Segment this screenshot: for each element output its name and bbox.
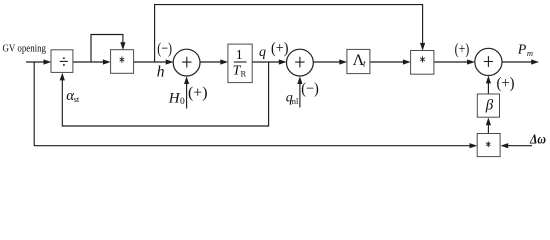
svg-text:(−): (−) xyxy=(301,81,319,98)
svg-text:GV opening: GV opening xyxy=(3,43,47,55)
svg-text:R: R xyxy=(241,68,247,78)
svg-text:H: H xyxy=(168,91,181,107)
svg-text:h: h xyxy=(157,63,165,80)
svg-text:P: P xyxy=(517,42,527,57)
svg-text:q: q xyxy=(259,45,266,60)
svg-text:(+): (+) xyxy=(497,75,515,92)
svg-text:nl: nl xyxy=(292,96,299,106)
svg-text:st: st xyxy=(74,94,80,104)
svg-text:(−): (−) xyxy=(157,41,172,58)
svg-text:β: β xyxy=(485,98,494,114)
svg-text:(+): (+) xyxy=(188,84,208,101)
svg-text:Δω: Δω xyxy=(529,133,546,148)
svg-text:m: m xyxy=(527,48,533,58)
svg-text:0: 0 xyxy=(180,97,185,107)
svg-text:1: 1 xyxy=(236,48,243,63)
svg-text:t: t xyxy=(363,60,366,70)
svg-text:(+): (+) xyxy=(271,40,289,57)
svg-text:(+): (+) xyxy=(455,41,470,58)
